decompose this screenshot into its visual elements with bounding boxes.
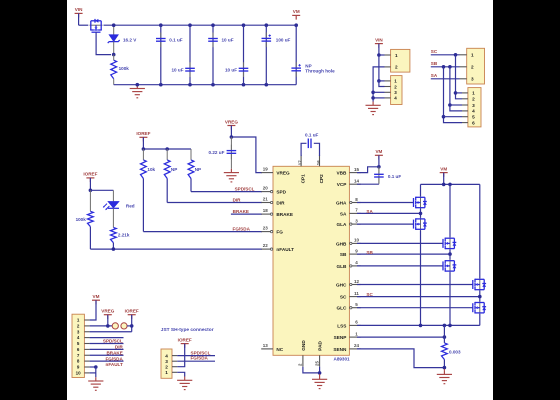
wire VM top rail [104, 24, 297, 26]
wire Q1 gate to node [96, 32, 111, 55]
jumper pad right [121, 323, 127, 329]
wire VM bridge rail [421, 183, 480, 187]
svg-text:25: 25 [314, 361, 319, 366]
pin 22 nFAULT [261, 243, 294, 252]
pin 17 CP1 [298, 155, 306, 184]
svg-text:CP1: CP1 [301, 174, 306, 184]
wire header DIR [90, 344, 124, 350]
LED D2 Red [103, 190, 135, 227]
pin 21 DIR [261, 197, 285, 206]
junction dots bottom rail [136, 83, 269, 87]
svg-text:2: 2 [395, 65, 398, 70]
svg-text:VIN: VIN [75, 7, 83, 12]
connector J4 6-pin [462, 88, 481, 127]
svg-text:18: 18 [263, 208, 269, 213]
power flag IOREF header [125, 309, 139, 332]
pin 16 CP2 [316, 155, 324, 184]
svg-text:12: 12 [354, 279, 360, 284]
wire net DIR [167, 197, 262, 202]
pin 4 GLB [336, 260, 360, 269]
transistor Q4 high-side B [443, 237, 456, 250]
wire J2 pin1 [379, 80, 385, 82]
svg-text:17: 17 [298, 160, 303, 165]
node zener-gate junction [112, 53, 116, 57]
svg-text:0.22 uF: 0.22 uF [209, 150, 225, 155]
zener diode D1 16.2 V [108, 25, 138, 54]
wire net SB [357, 250, 452, 260]
svg-text:SPD: SPD [276, 190, 286, 195]
svg-text:2: 2 [471, 65, 474, 70]
wire net SA [357, 209, 422, 218]
pin 2 GND [298, 340, 306, 367]
wire LSS rail [357, 324, 480, 328]
svg-text:NP: NP [195, 167, 201, 172]
node IOREF led junction [89, 189, 114, 193]
connector J3 3-pin [460, 48, 485, 84]
wire phase B source [449, 272, 451, 325]
ground shunt [437, 369, 452, 384]
svg-text:Through hole: Through hole [305, 69, 335, 74]
capacitor C1 0.1 uF [156, 25, 183, 84]
connector J1 2-pin [385, 49, 410, 72]
pin 8 GHA [336, 197, 361, 206]
label JST SH-type connector [161, 327, 214, 333]
pin 15 VBB [336, 167, 360, 176]
svg-text:GHA: GHA [336, 201, 347, 206]
svg-text:SC: SC [431, 49, 438, 54]
wire J1 pin2 to ground column [371, 67, 384, 102]
svg-text:0.003: 0.003 [449, 349, 461, 354]
wire net BRAKE [231, 209, 262, 214]
svg-text:VM: VM [293, 9, 300, 14]
svg-text:SPD/SCL: SPD/SCL [103, 339, 123, 344]
svg-text:4: 4 [472, 109, 475, 114]
op-amp U1 A89301 driver IC body [273, 166, 350, 361]
wire GLC [357, 307, 473, 309]
svg-text:Red: Red [126, 203, 135, 208]
svg-text:0.1 uF: 0.1 uF [305, 133, 318, 138]
wire header nFAULT [90, 361, 124, 367]
power flag VM at VBB [375, 149, 383, 167]
svg-text:0.1 uF: 0.1 uF [169, 38, 182, 43]
svg-text:VREG: VREG [225, 119, 238, 124]
transistor Q7 low-side C [473, 301, 486, 314]
transistor Q2 high-side A [414, 196, 427, 209]
svg-text:SA: SA [431, 73, 438, 78]
svg-text:FG/SDA: FG/SDA [191, 356, 209, 361]
pin 5 GLC [336, 302, 360, 311]
pin 7 SA [340, 208, 361, 217]
svg-text:GLC: GLC [336, 306, 347, 311]
svg-text:SB: SB [431, 61, 438, 66]
power flag VREG [225, 119, 238, 139]
transistor Q3 low-side A [414, 218, 427, 231]
capacitor C4 10 uF [225, 25, 248, 84]
wire GHA [357, 202, 414, 204]
wire net SC out [431, 49, 460, 57]
svg-text:LSS: LSS [337, 323, 346, 328]
connector J2 4-pin [385, 76, 403, 105]
svg-text:10 uF: 10 uF [225, 68, 237, 73]
svg-text:VIN: VIN [375, 37, 383, 42]
svg-text:PAD: PAD [318, 341, 323, 351]
svg-text:VCP: VCP [337, 182, 347, 187]
power flag IOREF JST [177, 337, 192, 366]
resistor R5 100k [76, 190, 94, 249]
power flag VREG header [101, 309, 114, 326]
pin 14 VCP [337, 179, 361, 188]
capacitor C9 0.1 uF charge pump [301, 133, 319, 156]
svg-text:16.2 V: 16.2 V [123, 37, 137, 42]
wire JST FG/SDA [177, 356, 215, 362]
wire SA to J4 [442, 67, 462, 123]
svg-text:2: 2 [165, 364, 168, 369]
white schematic canvas [67, 0, 493, 400]
ground header [88, 377, 103, 390]
wire header ground pins [90, 365, 98, 377]
resistor R1 100k [111, 55, 129, 85]
svg-text:22: 22 [263, 243, 269, 248]
junction dots top rail [112, 23, 298, 27]
wire IOREF pullup rail [142, 147, 191, 151]
wire net SC [357, 291, 482, 302]
wire J2 pin2 [379, 81, 385, 87]
pin 6 LSS [337, 320, 361, 329]
power flag IOREF led [83, 172, 97, 191]
transistor Q5 low-side B [443, 259, 456, 272]
svg-text:24: 24 [354, 343, 360, 348]
wire SB to J4 [448, 67, 462, 111]
svg-text:VM: VM [440, 166, 447, 171]
wire net nFAULT [90, 247, 262, 251]
power flag VM bridge [440, 166, 448, 184]
pin 20 SPD [261, 186, 286, 195]
transistor Q6 high-side C [473, 278, 486, 291]
pin 9 SB [340, 248, 361, 257]
svg-text:NP: NP [171, 167, 177, 172]
svg-text:DIR: DIR [115, 345, 124, 350]
svg-text:10k: 10k [147, 167, 155, 172]
pin 25 PAD [314, 341, 322, 367]
svg-text:FG: FG [276, 230, 283, 235]
svg-text:16: 16 [316, 160, 321, 165]
ground IC [312, 374, 327, 389]
ground VREG cap [224, 169, 239, 182]
wire GLB [357, 265, 443, 267]
pin 11 SC [340, 291, 361, 300]
resistor R6 2.21k [111, 227, 130, 249]
pin 24 SENN [333, 343, 360, 352]
capacitor C3 10 uF [208, 25, 233, 84]
ground main [130, 85, 145, 98]
wire JST ground pin [177, 372, 185, 376]
svg-text:A89301: A89301 [334, 356, 351, 361]
svg-text:NC: NC [276, 347, 283, 352]
wire J2 pin4 [373, 97, 384, 99]
wire J2 pin3 [373, 91, 384, 93]
svg-text:100 uF: 100 uF [276, 37, 291, 42]
wire J1 pin1 [379, 54, 385, 56]
svg-text:SC: SC [366, 292, 373, 297]
svg-text:2: 2 [472, 97, 475, 102]
svg-text:3: 3 [471, 77, 474, 82]
svg-text:10: 10 [354, 238, 360, 243]
ground input connectors [366, 102, 381, 115]
svg-text:DIR: DIR [233, 197, 242, 202]
wire header FG/SDA [90, 355, 124, 361]
wire phase B drain [449, 184, 451, 237]
svg-text:15: 15 [354, 167, 360, 172]
wire SENP [357, 335, 446, 339]
wire VREG to pin 19 [231, 137, 262, 173]
svg-text:1: 1 [471, 53, 474, 58]
svg-text:10: 10 [76, 371, 82, 376]
svg-text:6: 6 [472, 120, 475, 125]
svg-text:19: 19 [263, 167, 269, 172]
svg-text:1: 1 [472, 91, 475, 96]
svg-text:NP: NP [305, 63, 311, 68]
svg-text:3: 3 [472, 103, 475, 108]
wire phase C drain [479, 184, 481, 278]
pin 18 BRAKE [261, 208, 293, 217]
power flag VM top [292, 9, 300, 19]
svg-text:IOREF: IOREF [83, 172, 97, 177]
wire IOREF to pin 3 [90, 331, 132, 333]
wire phase A source [420, 230, 422, 325]
power flag VIN connectors [375, 37, 384, 55]
svg-text:SA: SA [340, 211, 347, 216]
wire SC to J4 [454, 55, 462, 99]
svg-text:14: 14 [354, 179, 360, 184]
wire VREG jumper [90, 324, 113, 328]
capacitor C6 NP through hole polarized [291, 25, 335, 84]
svg-text:GLA: GLA [336, 222, 347, 227]
power flag IOREF pullups [136, 131, 150, 149]
wire net SPD/SCL [191, 186, 262, 191]
power flag VM header [90, 294, 100, 320]
resistor R4 NP [188, 149, 201, 192]
svg-text:SB: SB [366, 250, 373, 255]
wire SENN [357, 349, 446, 370]
pin 23 FG [261, 226, 283, 235]
svg-text:VM: VM [93, 294, 100, 299]
svg-text:1: 1 [395, 53, 398, 58]
svg-text:SENN: SENN [333, 347, 347, 352]
pin 12 GHC [336, 279, 361, 288]
svg-text:1: 1 [165, 370, 168, 375]
wire net SB out [431, 61, 460, 69]
svg-text:VM: VM [375, 149, 382, 154]
svg-text:GND: GND [301, 340, 306, 351]
svg-text:BRAKE: BRAKE [276, 212, 293, 217]
svg-text:CP2: CP2 [319, 174, 324, 184]
svg-text:BRAKE: BRAKE [233, 209, 249, 214]
svg-text:10 uF: 10 uF [222, 38, 234, 43]
svg-text:100k: 100k [76, 217, 87, 222]
capacitor C10 0.1 uF VCP [374, 167, 401, 184]
jumper pad left [112, 323, 118, 329]
wire JST SPD/SCL [177, 350, 215, 355]
svg-text:VREG: VREG [101, 309, 114, 314]
svg-text:5: 5 [472, 115, 475, 120]
svg-text:VBB: VBB [336, 171, 347, 176]
resistor R7 0.003 shunt [442, 325, 461, 367]
svg-text:21: 21 [263, 197, 269, 202]
svg-text:SENP: SENP [334, 335, 347, 340]
svg-text:100k: 100k [119, 66, 130, 71]
wire GND PAD to ground [303, 367, 322, 375]
wire net FG/SDA [143, 226, 262, 231]
wire GLA [357, 223, 414, 225]
svg-text:13: 13 [263, 343, 269, 348]
svg-text:0.1 uF: 0.1 uF [388, 174, 401, 179]
capacitor C2 10 uF [172, 25, 195, 84]
wire phase C source [479, 314, 481, 326]
svg-text:IOREF: IOREF [125, 309, 139, 314]
wire phase A drain [420, 184, 422, 196]
svg-text:SA: SA [366, 209, 373, 214]
power flag VIN [75, 7, 84, 25]
pin 1 SENP [334, 331, 361, 340]
pin 13 NC [261, 343, 284, 352]
wire GHC [357, 284, 473, 286]
svg-text:4: 4 [165, 353, 168, 358]
svg-text:SPD/SCL: SPD/SCL [235, 186, 255, 191]
wire VCP [357, 183, 379, 185]
pin 3 GLA [336, 218, 360, 227]
svg-text:23: 23 [263, 226, 269, 231]
wire VIN column [377, 53, 381, 82]
wire GHB [357, 242, 443, 244]
svg-text:FG/SDA: FG/SDA [233, 226, 251, 231]
svg-text:3: 3 [165, 359, 168, 364]
svg-text:20: 20 [263, 186, 269, 191]
pin 19 VREG [261, 167, 290, 176]
capacitor C5 100 uF polarized [262, 25, 291, 84]
svg-text:IOREF: IOREF [136, 131, 150, 136]
resistor R3 NP [164, 149, 177, 203]
wire GND bottom rail [114, 84, 297, 86]
wire header BRAKE [90, 349, 124, 355]
svg-text:10 uF: 10 uF [172, 68, 184, 73]
svg-text:nFAULT: nFAULT [276, 247, 294, 252]
wire VBB to VM [357, 165, 381, 173]
svg-text:GLB: GLB [336, 264, 347, 269]
connector J5 10-pin header [72, 314, 90, 377]
pin 10 GHB [336, 238, 361, 247]
svg-text:GHC: GHC [336, 283, 347, 288]
svg-text:SB: SB [340, 252, 347, 257]
capacitor C8 0.22 uF [209, 137, 237, 169]
svg-text:IOREF: IOREF [178, 337, 192, 342]
wire VIN to Q1 [79, 24, 89, 26]
wire net SA out [431, 73, 460, 79]
resistor R2 10k [141, 149, 156, 232]
svg-text:JST SH-type connector: JST SH-type connector [161, 327, 214, 333]
ground JST [177, 377, 192, 390]
connector J6 JST 4-pin [161, 349, 177, 378]
wire header SPD/SCL [90, 338, 124, 344]
svg-text:DIR: DIR [276, 201, 285, 206]
transistor Q1 reverse-protection MOSFET [90, 19, 103, 32]
svg-text:11: 11 [354, 291, 359, 296]
svg-text:VREG: VREG [276, 171, 290, 176]
svg-text:SC: SC [340, 295, 347, 300]
svg-text:nFAULT: nFAULT [106, 362, 123, 367]
svg-text:2.21k: 2.21k [118, 232, 130, 237]
svg-text:GHB: GHB [336, 241, 347, 246]
